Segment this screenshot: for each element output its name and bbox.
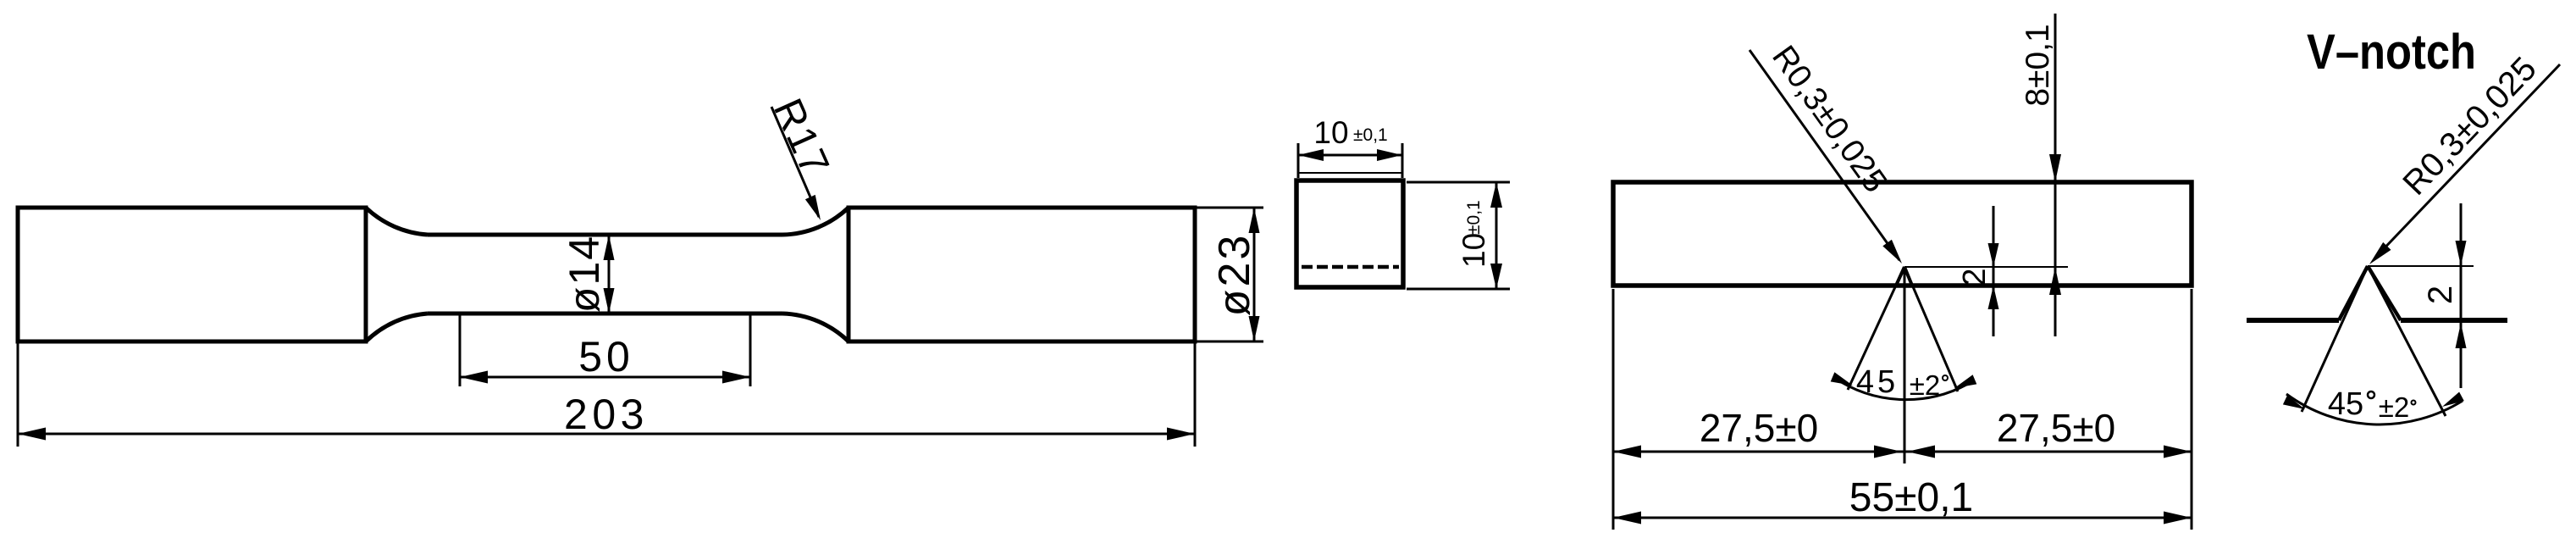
svg-text:V–notch: V–notch xyxy=(2307,25,2476,80)
svg-text:R17: R17 xyxy=(765,92,838,183)
svg-text:27,5±0: 27,5±0 xyxy=(1700,406,1818,450)
svg-text:2: 2 xyxy=(2422,286,2459,304)
svg-text:R0,3±0,025: R0,3±0,025 xyxy=(1765,39,1893,199)
svg-text:203: 203 xyxy=(564,391,649,438)
svg-text:45: 45 xyxy=(2328,386,2363,422)
svg-text:8±0,1: 8±0,1 xyxy=(2020,24,2056,106)
svg-text:27,5±0: 27,5±0 xyxy=(1997,406,2115,450)
svg-text:±2: ±2 xyxy=(2379,391,2409,423)
svg-text:50: 50 xyxy=(578,333,634,380)
svg-text:55±0,1: 55±0,1 xyxy=(1849,475,1973,520)
svg-text:2: 2 xyxy=(1957,268,1993,286)
svg-text:ø23: ø23 xyxy=(1210,233,1259,317)
svg-text:ø14: ø14 xyxy=(561,235,608,313)
svg-text:±0,1: ±0,1 xyxy=(1353,125,1388,145)
svg-text:10: 10 xyxy=(1313,115,1348,150)
svg-text:±0,1: ±0,1 xyxy=(1464,200,1484,235)
svg-text:±2: ±2 xyxy=(1910,369,1940,401)
svg-text:10: 10 xyxy=(1457,233,1491,268)
svg-text:45: 45 xyxy=(1856,364,1899,400)
